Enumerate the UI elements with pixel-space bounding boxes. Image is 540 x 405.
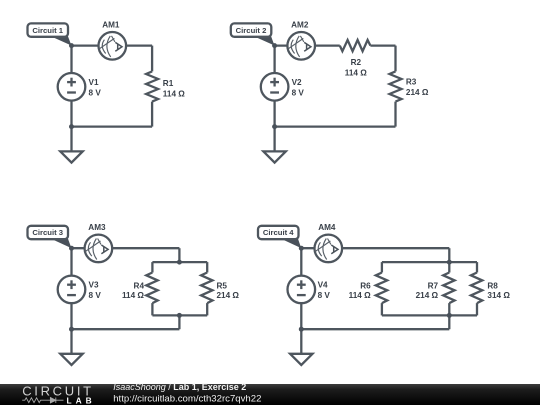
label flag Circuit 2 [231,23,271,36]
wire: C2 top node to R2 [275,44,340,46]
wire: C3 right branch bottom [206,303,208,315]
wire: C3 left branch top [151,262,153,272]
label pointer (Circuit 2) [254,36,274,45]
wire: C3 top node to feed corner [72,247,180,249]
node junction C3 top [69,246,74,251]
voltage source V1 [58,73,102,101]
svg-text:Circuit 3: Circuit 3 [32,228,63,237]
wire: C2 right rail down [394,46,396,72]
svg-text:R8: R8 [487,281,498,290]
svg-text:8 V: 8 V [89,291,102,300]
wire: C4 branch R6 bottom [381,303,383,315]
wire: C1 top node to ammeter [72,44,153,46]
ammeter AM2 [287,32,315,60]
wire: C4 feed drop [448,248,450,262]
node junction C4 bottom [299,327,304,332]
resistor R4 [146,273,157,304]
wire: C2 right rail below R3 [394,102,396,127]
wire: C4 top node to feed corner [301,247,449,249]
svg-text:8 V: 8 V [89,89,102,98]
svg-text:AM3: AM3 [88,223,106,232]
wire: C3 left rail bottom [70,303,72,329]
wire: C4 branch R8 bottom [476,303,478,315]
svg-text:214 Ω: 214 Ω [416,291,439,300]
svg-text:AM4: AM4 [318,223,336,232]
ground (circuit 2) [263,151,285,162]
ammeter AM4 [315,235,343,263]
node junction C2 bottom [272,124,277,129]
svg-text:IsaacShoong / Lab 1, Exercise: IsaacShoong / Lab 1, Exercise 2 [113,382,246,392]
svg-text:http://circuitlab.com/cth32rc7: http://circuitlab.com/cth32rc7qvh22 [113,393,261,404]
wire: C2 left rail top [273,46,275,73]
wire: C2 to ground [273,127,275,152]
wire: C3 to ground [70,329,72,354]
CircuitLab logo wordmark [22,383,96,405]
svg-text:8 V: 8 V [318,291,331,300]
svg-text:214 Ω: 214 Ω [406,88,429,97]
resistor R3 [390,71,402,101]
node junction C2 top [272,43,277,48]
svg-text:Circuit 2: Circuit 2 [236,26,267,35]
svg-text:R2: R2 [351,58,362,67]
wire: C1 left rail top (node to V1) [70,46,72,73]
wire: C4 parallel top rail [382,261,477,263]
wire: C4 branch R6 top [381,262,383,272]
svg-text:Circuit 4: Circuit 4 [263,228,294,237]
svg-text:Circuit 1: Circuit 1 [32,26,63,35]
resistor R5 [201,273,212,304]
svg-text:R1: R1 [163,79,174,88]
wire: C4 bottom [301,328,449,330]
svg-text:V2: V2 [292,78,302,87]
wire: C1 right rail below resistor [151,102,153,127]
wire: C3 bottom [72,328,180,330]
ammeter AM1 [99,32,127,60]
svg-text:114 Ω: 114 Ω [349,291,371,300]
wire: C4 parallel bottom rail [382,314,477,316]
svg-text:V1: V1 [89,78,99,87]
wire: C4 branch R8 top [476,262,478,272]
wire: C4 bottom drop [448,315,450,329]
wire: C3 right branch top [206,262,208,272]
label pointer (Circuit 1) [51,36,71,45]
resistor R1 [146,71,158,101]
wire: C3 left branch bottom [151,303,153,315]
svg-text:214 Ω: 214 Ω [217,291,240,300]
wire: C4 to ground [300,329,302,354]
node junction C3 rail bottom [177,313,182,318]
svg-text:R7: R7 [428,281,439,290]
label flag Circuit 1 [28,23,69,36]
resistor R7 [443,273,454,304]
node junction C3 rail top [177,260,182,265]
svg-text:R3: R3 [406,77,417,86]
node junction C4 top [299,246,304,251]
svg-text:114 Ω: 114 Ω [163,90,185,99]
svg-text:R6: R6 [360,281,371,290]
ground (circuit 3) [60,354,82,365]
voltage source V2 [261,73,305,101]
svg-text:R4: R4 [134,281,145,290]
node junction C1 top [69,43,74,48]
resistor R6 [376,273,387,304]
label pointer (Circuit 4) [281,239,301,248]
wire: C3 parallel bottom rail [152,314,207,316]
wire: C1 to ground [70,127,72,152]
wire: C3 bottom drop [178,315,180,329]
wire: C2 left rail bottom [273,101,275,127]
CircuitLab logo schematic squiggle (resistor + diode) [22,398,63,403]
wire: C1 right rail down [151,46,153,72]
wire: C4 left rail top [300,248,302,275]
svg-text:V4: V4 [318,281,328,290]
resistor R2 [340,40,371,51]
wire: C2 bottom [275,125,396,127]
ammeter AM3 [85,235,113,263]
svg-text:AM2: AM2 [291,21,309,30]
node junction C1 bottom [69,124,74,129]
svg-text:314 Ω: 314 Ω [487,291,510,300]
voltage source V4 [288,276,331,304]
svg-text:V3: V3 [89,281,99,290]
svg-text:LAB: LAB [67,395,96,405]
node junction C3 bottom [69,327,74,332]
node junction C4 rail top [447,260,452,265]
footer bar [0,384,540,405]
wire: C1 left rail bottom (V1 to bottom) [70,101,72,127]
label flag Circuit 4 [258,226,299,239]
svg-text:8 V: 8 V [292,89,305,98]
resistor R8 [471,273,482,304]
svg-text:R5: R5 [217,281,228,290]
wire: C4 branch R7 top [448,262,450,272]
svg-text:AM1: AM1 [102,21,120,30]
wire: C3 feed drop [178,248,180,262]
voltage source V3 [58,276,102,304]
wire: C2 R2 to corner [370,44,395,46]
wire: C4 branch R7 bottom [448,303,450,315]
wire: C4 left rail bottom [300,303,302,329]
node junction C4 rail bottom [447,313,452,318]
svg-text:114 Ω: 114 Ω [345,68,367,77]
label pointer (Circuit 3) [51,239,71,248]
ground (circuit 1) [60,151,82,162]
label flag Circuit 3 [28,226,69,239]
wire: C3 parallel top rail [152,261,207,263]
wire: C1 bottom [72,125,153,127]
wire: C3 left rail top [70,248,72,275]
ground (circuit 4) [290,354,312,365]
svg-text:114 Ω: 114 Ω [122,291,144,300]
